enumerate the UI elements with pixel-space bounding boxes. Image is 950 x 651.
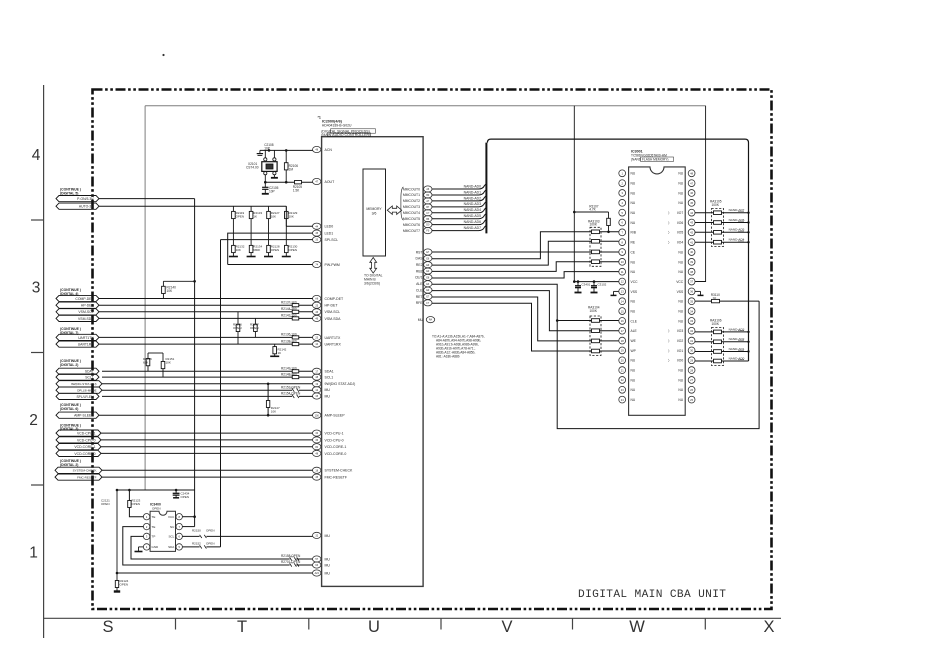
connector group header CONTINUE/DIGITAL 7 <box>60 327 81 335</box>
IC2000 pin RB2 <box>416 268 432 274</box>
resistor R2153 OPEN <box>281 385 301 391</box>
stray dot mark <box>162 54 164 56</box>
svg-text:NU: NU <box>631 309 636 313</box>
svg-text:10K: 10K <box>236 248 241 252</box>
IC2000 pin MU <box>313 562 331 568</box>
IC3001 pin 1 NU <box>619 170 636 177</box>
wire VCD-CORE-1 <box>101 446 313 448</box>
resistor array RA3105 100K <box>710 200 724 247</box>
capacitor C2105 10P <box>262 182 279 194</box>
wire ACN <box>260 149 313 152</box>
svg-text:CLE: CLE <box>416 288 423 292</box>
IC2000 pin VCD-CORE-1 <box>313 444 347 450</box>
svg-text:P-ON/3.3V: P-ON/3.3V <box>77 197 94 201</box>
svg-text:〉: 〉 <box>668 230 671 235</box>
svg-text:VCC: VCC <box>168 515 175 519</box>
svg-text:TE: TE <box>152 515 156 519</box>
svg-text:A24: A24 <box>315 572 320 575</box>
ceramic resonator X2101 CST4.00MGW <box>246 150 277 174</box>
svg-text:SYSTEM-CHECK: SYSTEM-CHECK <box>73 469 97 473</box>
svg-text:NU: NU <box>678 309 683 313</box>
resistor R2144 390 <box>281 307 299 313</box>
resistor R2148 390 <box>281 372 299 378</box>
wire SDA return <box>183 546 221 548</box>
wire MMCOUT5 net NAND-AD5 <box>432 214 486 219</box>
IC3001 pin 23 NU <box>619 386 636 393</box>
op-amp IC2000 main DSP body <box>322 137 424 587</box>
IC3001 pin 31 I/O2 <box>668 337 695 344</box>
IC2000 pin MMCOUT5 <box>403 216 432 222</box>
resistor R2143 390 <box>281 314 299 320</box>
wire VCD-CPU-1 <box>101 432 313 434</box>
svg-text:NAND-AD0: NAND-AD0 <box>464 184 481 188</box>
svg-text:NAND-AD7: NAND-AD7 <box>464 226 481 230</box>
ruler tick between 4 and 3 <box>31 219 44 221</box>
wire AUTO-3V <box>99 205 286 207</box>
wire NAND-AD2 <box>695 337 750 343</box>
resistor R2140 10K pullup <box>162 280 196 299</box>
IC3001 pin 18 WE <box>619 337 637 344</box>
wire AOUT <box>264 175 313 184</box>
svg-text:3: 3 <box>32 280 41 297</box>
svg-text:X: X <box>763 618 774 636</box>
svg-text:〉: 〉 <box>668 358 671 363</box>
svg-text:VCD-CPU-0: VCD-CPU-0 <box>325 438 344 442</box>
connector group header CONTINUE/DIGITAL 6 <box>60 403 81 411</box>
wire pin1 loop <box>128 489 144 517</box>
wire SDA1 <box>102 370 313 372</box>
left ruler line <box>43 85 45 638</box>
svg-text:NAND-AD6: NAND-AD6 <box>464 220 481 224</box>
IC3001 pin 41 I/O4 <box>668 239 695 246</box>
wire HP-DET <box>99 304 313 306</box>
svg-text:VCD-CORE-0: VCD-CORE-0 <box>74 452 95 456</box>
resistor R2136 100 <box>281 333 299 339</box>
connector group header CONTINUE/DIGITAL 2b <box>60 459 81 467</box>
bottom ruler tick S|T <box>175 618 177 629</box>
svg-text:NU: NU <box>631 359 636 363</box>
wire COMP-DET <box>99 298 313 300</box>
connector tag SPL/LR-EN <box>56 393 99 399</box>
svg-text:OPEN: OPEN <box>152 506 161 510</box>
connector tag HP-DET <box>56 302 99 308</box>
svg-text:COMP-DET: COMP-DET <box>325 297 345 301</box>
IC3001 pin 42 I/O5 <box>668 229 695 236</box>
svg-text:OPEN: OPEN <box>181 495 190 499</box>
svg-text:LED0: LED0 <box>325 225 334 229</box>
svg-text:RET: RET <box>416 295 423 299</box>
svg-text:AUTO-3V: AUTO-3V <box>79 205 94 209</box>
svg-text:3/6(2C6/6): 3/6(2C6/6) <box>364 281 380 285</box>
resistor R2154 OPEN <box>281 392 301 398</box>
IC2000 pin RFE <box>416 300 432 306</box>
svg-text:NU: NU <box>631 260 636 264</box>
svg-text:I/O6: I/O6 <box>677 221 683 225</box>
IC3001 pin 33 NU <box>678 318 695 325</box>
IC3001 pin 9 CE <box>619 249 636 256</box>
IC2000 pin 9W(DIG STAT-ADJ) <box>313 381 356 387</box>
connector group header CONTINUE/DIGITAL 5 <box>60 188 81 196</box>
svg-text:NU: NU <box>678 398 683 402</box>
IC2000 pin VCD-CPU-0 <box>313 437 344 443</box>
svg-text:NU: NU <box>678 319 683 323</box>
svg-text:OPEN: OPEN <box>236 215 245 219</box>
wire AMP-SLEEP <box>99 414 313 416</box>
svg-text:(DIGITAL 3): (DIGITAL 3) <box>60 427 78 431</box>
IC3001 pin 15 NU <box>619 308 636 315</box>
svg-text:I/O7: I/O7 <box>677 211 683 215</box>
wire T-branch MU row <box>116 572 313 575</box>
connector tag VSM-SCL <box>56 309 99 315</box>
resistor R2138 100 <box>281 339 299 345</box>
svg-text:NU: NU <box>678 300 683 304</box>
wire MMCOUT3 net NAND-AD3 <box>432 202 486 207</box>
IC3001 pin 27 NU <box>678 377 695 384</box>
IC3001 pin 3 NU <box>619 190 636 197</box>
svg-text:OPEN: OPEN <box>233 326 242 330</box>
IC3400 body <box>150 511 175 551</box>
wire SPI-SCL <box>221 239 313 241</box>
column label W <box>629 618 645 636</box>
connector tag AUTO-3V <box>56 203 99 209</box>
svg-text:MMCOUT2: MMCOUT2 <box>403 199 420 203</box>
IC3001 pin 36 VSS <box>677 288 695 295</box>
IC3001 pin 44 I/O7 <box>668 209 695 216</box>
svg-text:UART1RX: UART1RX <box>325 343 342 347</box>
svg-text:*1: *1 <box>318 116 321 120</box>
svg-text:ALE: ALE <box>416 282 423 286</box>
wire NAND-AD1 <box>695 347 750 353</box>
wire VSM-SDA <box>99 317 313 319</box>
svg-text:MMCOUT5: MMCOUT5 <box>403 217 420 221</box>
svg-text:SPL/LR-EN: SPL/LR-EN <box>76 395 94 399</box>
svg-text:R2152: R2152 <box>192 541 201 545</box>
svg-text:MMCOUT3: MMCOUT3 <box>403 205 420 209</box>
svg-text:SDA: SDA <box>168 545 174 549</box>
IC2000 pin DAS <box>416 255 432 261</box>
svg-text:NU: NU <box>170 525 174 529</box>
svg-text:UART1TX: UART1TX <box>78 336 94 340</box>
svg-text:NU: NU <box>631 201 636 205</box>
svg-text:〉: 〉 <box>668 348 671 353</box>
svg-text:CST4.00: CST4.00 <box>246 166 259 170</box>
wire IC3400 top rail <box>117 489 195 491</box>
resistor R2150 OPEN <box>192 529 215 538</box>
resistor R2137 100 <box>281 300 299 306</box>
svg-text:MU: MU <box>325 563 331 567</box>
IC3001 pin 13 VSS <box>619 288 638 295</box>
IC2000 pin MU <box>313 556 331 562</box>
IC2000 pin MMCOUT0 <box>403 186 432 192</box>
svg-text:I/O5: I/O5 <box>677 231 683 235</box>
svg-text:HP-DET: HP-DET <box>325 304 339 308</box>
svg-text:R/B: R/B <box>631 231 637 235</box>
svg-text:NAND-AD1: NAND-AD1 <box>464 190 481 194</box>
svg-text:VCD-CORE-1: VCD-CORE-1 <box>74 445 95 449</box>
svg-text:NU: NU <box>678 369 683 373</box>
bottom ruler tick U|V <box>440 618 442 629</box>
resistor R2128 OPEN <box>264 232 280 257</box>
svg-text:NU: NU <box>678 270 683 274</box>
resistor array RA3103 100K <box>588 219 601 266</box>
wire VSM-SCL <box>99 311 313 313</box>
svg-text:1M: 1M <box>289 168 294 172</box>
svg-text:NU: NU <box>631 270 636 274</box>
IC3001 pin 46 NU <box>678 190 695 197</box>
wire MMCOUT7 net NAND-AD7 <box>432 226 486 231</box>
IC3001 pin 4 NU <box>619 199 636 206</box>
svg-text:〉: 〉 <box>668 338 671 343</box>
svg-text:OPEN: OPEN <box>206 529 215 533</box>
IC3001 pin 17 ALE <box>619 327 638 334</box>
IC3001 pin 38 NU <box>678 268 695 275</box>
wire WP net <box>432 303 619 351</box>
IC2000 pin FMC-RESETF <box>313 474 348 480</box>
svg-text:1: 1 <box>29 545 38 562</box>
IC3400 pin 1 TE <box>143 514 155 520</box>
IC2000 pin MU <box>313 532 331 538</box>
svg-text:TE: TE <box>152 525 156 529</box>
svg-text:(DIGITAL 2): (DIGITAL 2) <box>60 463 78 467</box>
resistor C2121 OPEN label <box>101 499 110 507</box>
svg-text:NU: NU <box>678 388 683 392</box>
connector tag VCD-CPU-1 <box>56 430 101 436</box>
IC3001 pin 25 NU <box>678 396 695 403</box>
svg-text:NU: NU <box>631 191 636 195</box>
IC2000 pin SCL1 <box>313 374 334 380</box>
svg-text:CE: CE <box>631 250 636 254</box>
svg-text:VSS: VSS <box>631 290 638 294</box>
ground IC3400 GND pin <box>135 547 144 552</box>
wire R/B net <box>432 232 619 259</box>
wire FMC-RESETF <box>102 476 313 478</box>
svg-text:VCD-CPU-1: VCD-CPU-1 <box>325 432 344 436</box>
svg-text:SCL1: SCL1 <box>325 376 334 380</box>
IC2000 pin MMCOUT2 <box>403 198 432 204</box>
row label 1 <box>29 545 38 562</box>
IC2000 pin VSM-SCL <box>313 309 341 315</box>
IC2000 pin MMCOUT6 <box>403 222 432 228</box>
svg-text:AOUT: AOUT <box>325 180 336 184</box>
wire MMCOUT2 net NAND-AD2 <box>432 196 486 201</box>
wire VCC rail top <box>145 105 706 107</box>
svg-text:LED1: LED1 <box>325 232 334 236</box>
column label X <box>763 618 774 636</box>
IC3001 pin 37 VCC <box>676 278 695 285</box>
IC2000 pin VCD-CORE-0 <box>313 450 347 456</box>
IC2000 pin AMP-SLEEP <box>313 412 346 418</box>
svg-text:UART1RX: UART1RX <box>78 343 95 347</box>
svg-text:10K: 10K <box>167 289 174 293</box>
svg-text:MU: MU <box>325 394 331 398</box>
IC3001 pin 32 I/O3 <box>668 327 695 334</box>
resistor R2130 OPEN <box>282 232 298 257</box>
wire LED1 <box>228 233 313 264</box>
svg-text:T: T <box>237 618 247 636</box>
IC2000 pin RST <box>416 249 432 255</box>
svg-text:UART1TX: UART1TX <box>325 336 342 340</box>
IC3001 pin 30 I/O1 <box>668 347 695 354</box>
svg-text:AMP-SLEEP: AMP-SLEEP <box>325 414 346 418</box>
resistor R2149 100 <box>281 367 299 373</box>
wire CLE net with bottom loop <box>432 284 759 428</box>
row label 4 <box>32 147 41 164</box>
wire UART1TX <box>99 336 313 338</box>
wire MMCOUT6 net NAND-AD6 <box>432 220 486 225</box>
wire pin2 loop to MU <box>123 527 313 567</box>
connector tag SDA1 <box>56 368 99 374</box>
wire ALE net <box>432 291 619 331</box>
svg-text:1.5K: 1.5K <box>293 189 300 193</box>
svg-text:MMCOUT4: MMCOUT4 <box>403 211 420 215</box>
svg-text:〉: 〉 <box>668 210 671 215</box>
svg-text:AMP-SLEEP: AMP-SLEEP <box>74 414 94 418</box>
wire LED0 <box>286 206 312 226</box>
IC3001 pin 34 NU <box>678 308 695 315</box>
resistor R2129 10K <box>285 206 298 232</box>
wire P-ON/3.3V <box>99 198 195 200</box>
svg-text:SCL: SCL <box>168 535 174 539</box>
svg-text:PW-PWM: PW-PWM <box>325 263 340 267</box>
IC2000 pin VSM-SDA <box>313 315 342 321</box>
IC2000 pin RET <box>416 293 432 299</box>
IC2000 pin LED0 <box>313 223 334 229</box>
IC3001 pin 8 RE <box>619 239 636 246</box>
svg-text:COMP-DET: COMP-DET <box>75 297 93 301</box>
bottom ruler tick V|W <box>572 618 574 629</box>
column label S <box>102 618 113 636</box>
IC3400 pin 4 GND <box>143 544 159 550</box>
svg-text:10K: 10K <box>271 215 276 219</box>
svg-text:(DIGITAL 5): (DIGITAL 5) <box>60 191 78 195</box>
IC3001 pin 6 NU <box>619 219 636 226</box>
svg-text:NU: NU <box>678 201 683 205</box>
svg-text:NU: NU <box>631 182 636 186</box>
bottom ruler tick W|X <box>704 618 706 629</box>
IC3001 pin 47 NU <box>678 180 695 187</box>
resistor R2123 OPEN label <box>132 499 141 507</box>
svg-text:(DIGITAL 2): (DIGITAL 2) <box>60 363 78 367</box>
svg-text:RFE: RFE <box>416 301 424 305</box>
svg-text:100K: 100K <box>590 309 598 313</box>
IC2000 pin MU RA <box>418 317 435 323</box>
connector tag SYSTEM-CHECK <box>55 467 102 473</box>
connector group header CONTINUE/DIGITAL 3 <box>60 423 81 431</box>
svg-text:〉: 〉 <box>668 328 671 333</box>
svg-text:NAND-AD3: NAND-AD3 <box>464 202 481 206</box>
column label U <box>368 618 380 636</box>
svg-text:TP: TP <box>152 535 156 539</box>
IC2000 pin MU <box>313 570 331 576</box>
svg-text:OPEN: OPEN <box>120 583 129 587</box>
IC2000 pin HP-DET <box>313 302 339 308</box>
resistor R2124 OPEN with ground <box>114 489 129 593</box>
wire SPI-SCL feed vertical <box>220 240 222 547</box>
svg-text:10P: 10P <box>269 189 275 193</box>
IC2000 pin MMCOUT1 <box>403 192 432 198</box>
svg-text:RST: RST <box>416 250 423 254</box>
down arrow to digital main B <box>370 258 377 274</box>
resistor R2134 680K <box>247 232 263 257</box>
wire NAND-AD7 <box>695 208 750 214</box>
connector tag P-ON/3.3V <box>56 196 99 202</box>
svg-text:WE: WE <box>631 339 637 343</box>
connector tag 9W(DIG STAT-ADJ) <box>56 381 102 387</box>
svg-text:MMCOUT0: MMCOUT0 <box>403 187 420 191</box>
svg-text:〉: 〉 <box>668 240 671 245</box>
svg-text:FMC-RESETF: FMC-RESETF <box>325 476 348 480</box>
svg-text:〉: 〉 <box>668 220 671 225</box>
wire P-ON vertical drop <box>194 199 196 517</box>
wire NU pin11 net <box>432 272 619 278</box>
capacitor C3401 <box>575 280 591 292</box>
IC2000 pin MMCOUT7 <box>403 227 432 233</box>
svg-text:MU: MU <box>418 318 424 322</box>
svg-text:NU: NU <box>678 378 683 382</box>
svg-text:100: 100 <box>315 414 320 417</box>
IC2000 pin MU <box>313 393 331 399</box>
IC2000 pin SPI-SCL <box>313 237 339 243</box>
wire SCL to MU <box>183 535 313 537</box>
wire SPL/LR-EN <box>102 395 313 397</box>
svg-text:OPEN: OPEN <box>206 541 215 545</box>
svg-text:1K: 1K <box>253 215 257 219</box>
IC3001 pin 22 NU <box>619 377 636 384</box>
svg-text:RE: RE <box>631 241 636 245</box>
wire VCC drop to NAND pin12 <box>573 106 575 282</box>
wire WE net <box>432 297 619 341</box>
bus NAND address vertical <box>486 139 748 361</box>
IC3001 pin 2 NU <box>619 180 636 187</box>
svg-text:DAS: DAS <box>416 257 424 261</box>
svg-text:VCD-CORE-1: VCD-CORE-1 <box>325 445 347 449</box>
svg-text:61K: 61K <box>143 361 148 365</box>
connector tag FMC-RESETF <box>55 474 102 480</box>
svg-text:NU: NU <box>678 172 683 176</box>
svg-text:I/O1: I/O1 <box>677 349 683 353</box>
svg-text:SDA1: SDA1 <box>325 370 334 374</box>
svg-text:SPI-SCL: SPI-SCL <box>325 238 339 242</box>
wire NAND-AD0 <box>695 356 749 361</box>
connector tag SCL1 <box>56 374 99 380</box>
IC3001 pin 12 VCC <box>619 278 638 285</box>
svg-text:GND: GND <box>152 545 160 549</box>
IC2000 pin ALE <box>416 281 432 287</box>
bottom ruler tick T|U <box>308 618 310 629</box>
wire SCL1 <box>102 376 313 378</box>
IC2000 pin ACN <box>313 146 333 152</box>
svg-text:I/O3: I/O3 <box>677 329 683 333</box>
svg-text:ALE: ALE <box>631 329 638 333</box>
wire CE net <box>432 251 619 253</box>
capacitor C2434 OPEN <box>173 489 190 499</box>
svg-text:NU: NU <box>678 182 683 186</box>
wire NAND VCC left <box>573 280 619 283</box>
wire NAND-AD3 <box>695 327 750 333</box>
svg-text:OPEN: OPEN <box>132 502 141 506</box>
resistor R2126 61K <box>143 353 163 371</box>
svg-text:100K: 100K <box>590 223 598 227</box>
svg-text:HP-DET: HP-DET <box>81 304 94 308</box>
IC2000 pin COMP-DET <box>313 295 345 301</box>
IC3001 NAND flash label <box>631 149 674 161</box>
svg-text:4: 4 <box>32 147 41 164</box>
svg-text:MU: MU <box>325 388 331 392</box>
svg-text:RA: RA <box>429 319 433 322</box>
dash-dot border frame <box>93 90 772 610</box>
row label 2 <box>29 412 38 429</box>
svg-text:MMCOUT1: MMCOUT1 <box>403 193 420 197</box>
